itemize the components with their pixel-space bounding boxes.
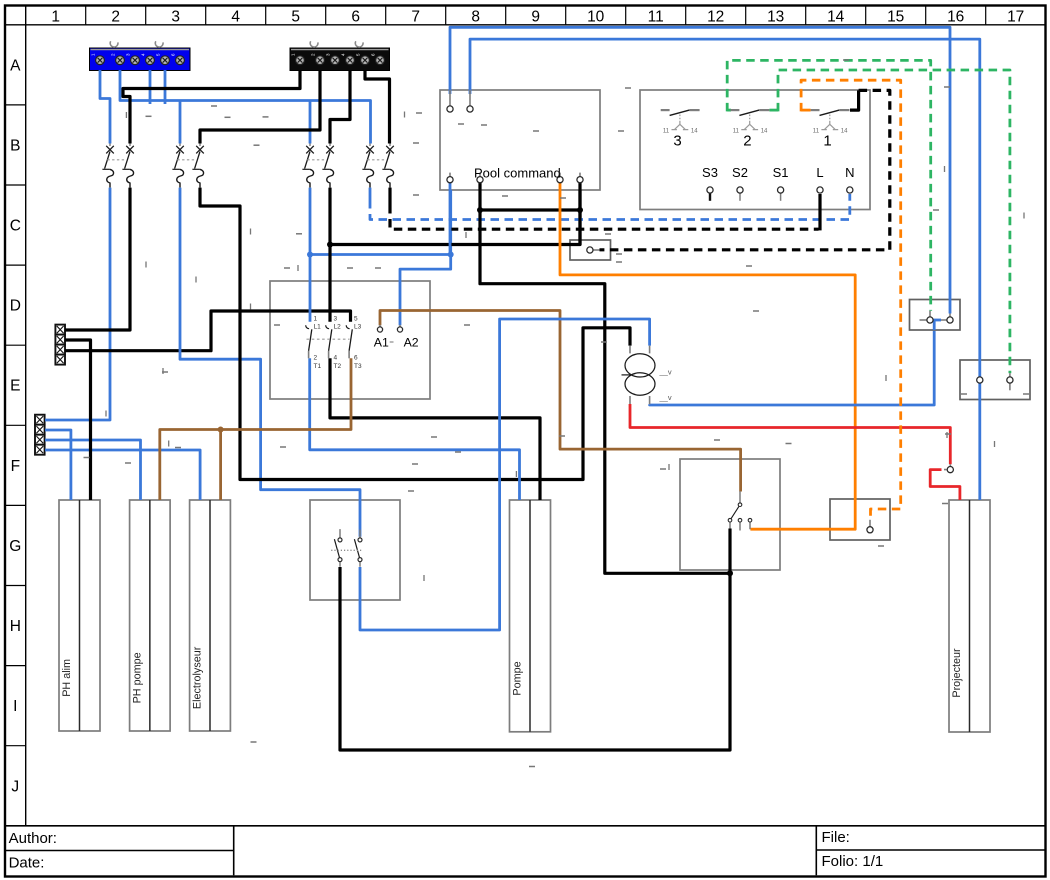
wire green link to contact 2 left bbox=[727, 109, 731, 112]
wire orange link contact 1 left bbox=[801, 109, 811, 112]
svg-text:12: 12 bbox=[707, 9, 724, 26]
svg-text:17: 17 bbox=[1007, 9, 1024, 26]
S7 right bottom stub bbox=[1009, 383, 1011, 390]
relay contact 2 bbox=[731, 110, 770, 150]
S6 terminal right bbox=[947, 317, 953, 323]
wire Q1A down to strip TB2 cell1 bbox=[45, 188, 110, 420]
svg-text:L: L bbox=[816, 165, 823, 180]
svg-text:__v: __v bbox=[659, 368, 672, 377]
wire X2:1 to Q1 pole B bbox=[123, 70, 300, 144]
wire S7 left down to Projecteur bbox=[978, 383, 981, 500]
Pool command top terminal stubs bbox=[450, 90, 470, 106]
row letter column line bbox=[25, 6, 27, 826]
column numbers bbox=[51, 9, 1024, 26]
svg-text:1: 1 bbox=[51, 9, 60, 26]
svg-text:PH pompe: PH pompe bbox=[132, 652, 144, 703]
wire TB2 cell2 to PH alim left bbox=[45, 430, 71, 500]
wire dashed neutral to N bbox=[370, 194, 850, 220]
svg-text:T2: T2 bbox=[334, 363, 342, 370]
wire dashed line to L bbox=[390, 205, 819, 229]
decorative tiny conductor marks bbox=[84, 60, 1030, 767]
svg-text:File:: File: bbox=[822, 829, 850, 846]
svg-text:4: 4 bbox=[334, 355, 338, 362]
svg-text:T3: T3 bbox=[354, 363, 362, 370]
S6 left stub bbox=[920, 319, 927, 321]
svg-text:Author:: Author: bbox=[9, 830, 57, 847]
node junction out4 bbox=[577, 207, 583, 213]
svg-text:E: E bbox=[10, 378, 20, 395]
svg-text:1: 1 bbox=[314, 316, 318, 323]
wire Q3A down to contactor L1 bbox=[309, 188, 312, 322]
wire black link contact 1 right bbox=[850, 90, 859, 110]
transformer T1 bbox=[622, 346, 672, 405]
wire X1:1 to Q1 pole A bbox=[100, 70, 110, 144]
wire S6 internal drop bbox=[933, 320, 936, 330]
wire Pool command out2 to selector junction bbox=[480, 183, 730, 573]
wire Pool command in2 loop to S7 left bbox=[470, 39, 980, 377]
Pool command terminal out2 bbox=[477, 177, 483, 183]
wire jumper out2-out4 bbox=[480, 208, 580, 211]
circuit breaker Q3 (2-pole) bbox=[302, 143, 333, 187]
wire stub from X1:4 bbox=[149, 70, 152, 104]
wire orange Pool command out3 to selector pos3 bbox=[560, 183, 855, 529]
wire Q2A to switch S4 pole2 bbox=[180, 188, 360, 537]
svg-text:L3: L3 bbox=[354, 324, 362, 331]
S6 top-left stub bbox=[929, 311, 931, 317]
Pool command terminal in1 bbox=[447, 106, 453, 112]
wire S6 internal blue bbox=[931, 319, 941, 322]
svg-text:8: 8 bbox=[471, 9, 480, 26]
load box: PH pompe bbox=[130, 500, 171, 731]
svg-text:5: 5 bbox=[291, 9, 300, 26]
svg-text:A: A bbox=[10, 57, 21, 74]
wire X2:4 to Q3 pole B bbox=[330, 70, 350, 144]
header row bottom line bbox=[5, 24, 1046, 26]
svg-text:11: 11 bbox=[663, 128, 670, 134]
S7 right top stub bbox=[1009, 373, 1011, 377]
svg-text:B: B bbox=[10, 137, 20, 154]
svg-text:4: 4 bbox=[231, 9, 240, 26]
wire TB1 cell3 to contactor L3 bbox=[65, 311, 350, 351]
terminal S1 bbox=[773, 165, 789, 201]
wire L terminal drop bbox=[818, 194, 821, 230]
wire orange dashed contact1-left to K2 bbox=[801, 80, 901, 520]
node junction selector pos1 bbox=[727, 570, 733, 576]
terminal block X1 (blue) bbox=[90, 41, 191, 70]
svg-text:2: 2 bbox=[314, 355, 318, 362]
wire branch to contactor coil A2 bbox=[400, 255, 451, 326]
terminal S3 bbox=[702, 165, 718, 201]
svg-text:F: F bbox=[11, 458, 20, 475]
terminal S2 bbox=[732, 165, 748, 201]
row tick lines bbox=[5, 105, 26, 746]
wire red jog to Projecteur left bbox=[930, 470, 960, 500]
circuit breaker Q2 (2-pole) bbox=[172, 143, 203, 187]
svg-text:3: 3 bbox=[673, 133, 681, 150]
svg-text:6: 6 bbox=[351, 9, 360, 26]
wire blue bus branch to Q2 pole A bbox=[179, 101, 182, 144]
relay contact 3 bbox=[661, 110, 700, 150]
svg-text:11: 11 bbox=[733, 128, 740, 134]
wire branch to Electrolyseur right bbox=[219, 430, 222, 501]
wire X2:2 to Q2 pole B bbox=[200, 70, 320, 144]
svg-text:6: 6 bbox=[354, 355, 358, 362]
selector S5 contacts bbox=[728, 491, 752, 530]
wire TB2 cell3 to PH pompe left bbox=[45, 440, 141, 500]
wire bus to Pool command out1 bbox=[310, 190, 451, 255]
box switch S6 bbox=[910, 300, 961, 331]
red terminal stubs bbox=[944, 464, 950, 469]
svg-text:Folio: 1/1: Folio: 1/1 bbox=[822, 853, 884, 870]
wire coil A1 to selector common bbox=[380, 311, 741, 492]
box relay K1 bbox=[570, 240, 611, 260]
svg-text:3: 3 bbox=[171, 9, 180, 26]
box relay contacts / terminals U2 bbox=[640, 90, 870, 210]
svg-text:14: 14 bbox=[827, 9, 845, 26]
Pool command terminal in2 bbox=[467, 106, 473, 112]
svg-text:Pool command: Pool command bbox=[474, 166, 561, 181]
terminal L bbox=[816, 165, 823, 193]
svg-text:C: C bbox=[10, 218, 21, 235]
svg-text:Date:: Date: bbox=[9, 855, 45, 872]
Pool command terminal out4 bbox=[577, 177, 583, 183]
row letters bbox=[9, 57, 21, 795]
svg-text:11: 11 bbox=[648, 9, 664, 26]
wire contactor T1 to Pompe left bbox=[310, 358, 520, 500]
contactor coil terminal A1 bbox=[379, 325, 381, 327]
box contactor KM1 bbox=[270, 281, 430, 399]
svg-text:5: 5 bbox=[354, 316, 358, 323]
svg-text:15: 15 bbox=[887, 9, 904, 26]
wire Q4B stub solid bbox=[388, 188, 391, 205]
svg-text:1: 1 bbox=[823, 133, 831, 150]
wire green dashed contact2-left to S6 bbox=[727, 60, 931, 310]
svg-text:14: 14 bbox=[841, 128, 848, 134]
terminal block X2 (black) bbox=[290, 41, 390, 70]
svg-text:T1: T1 bbox=[314, 363, 322, 370]
wire stub from X1:5 bbox=[164, 70, 167, 104]
contactor pole L3/T3 bbox=[346, 316, 362, 371]
svg-text:L1: L1 bbox=[314, 324, 322, 331]
node junction out2 bbox=[477, 207, 483, 213]
terminal N bbox=[845, 165, 854, 193]
wire Pool command out1 drop bbox=[449, 183, 452, 255]
switch S4 poles bbox=[331, 529, 362, 567]
column tick lines bbox=[86, 6, 986, 25]
contactor pole L1/T1 bbox=[306, 316, 322, 371]
wire green link contact 2 right bbox=[769, 109, 778, 112]
wire Q1B down to strip TB1 cell1 bbox=[65, 188, 130, 330]
svg-text:16: 16 bbox=[947, 9, 964, 26]
svg-text:14: 14 bbox=[691, 128, 698, 134]
circuit breaker Q1 (2-pole) bbox=[102, 143, 133, 187]
node junction Pool command out1 bbox=[448, 252, 454, 258]
svg-text:11: 11 bbox=[813, 128, 820, 134]
relay contact 1 bbox=[811, 110, 850, 150]
svg-text:Projecteur: Projecteur bbox=[951, 648, 963, 698]
wire transformer secondary left (red) to terminal bbox=[630, 404, 950, 464]
red wire terminal bbox=[947, 467, 953, 473]
svg-text:__v: __v bbox=[659, 393, 672, 402]
wire bus244 to Pool command out4 bbox=[330, 190, 580, 245]
box switch S4 bbox=[310, 500, 400, 600]
svg-text:9: 9 bbox=[531, 9, 540, 26]
svg-text:10: 10 bbox=[587, 9, 605, 26]
load box: PH alim bbox=[59, 500, 100, 731]
wire TB1 cell2 to PH alim right bbox=[65, 340, 90, 500]
wire green dashed contact2-right to S7 bbox=[778, 70, 1010, 373]
S6 terminal left bbox=[927, 317, 933, 323]
svg-text:13: 13 bbox=[767, 9, 784, 26]
wire TB2 cell4 to Electrolyseur left bbox=[45, 450, 200, 500]
wire S4 pole1 to selector pos1 bbox=[340, 529, 730, 751]
wire Q2B to transformer primary left bbox=[200, 188, 630, 480]
K2 contact terminal bbox=[867, 527, 873, 533]
svg-text:A2: A2 bbox=[404, 336, 419, 350]
load box: Projecteur bbox=[949, 500, 990, 732]
load box: Pompe bbox=[510, 500, 551, 732]
contactor mechanical link bbox=[307, 338, 350, 340]
svg-text:L2: L2 bbox=[334, 324, 342, 331]
svg-text:14: 14 bbox=[761, 128, 768, 134]
svg-text:A1: A1 bbox=[374, 336, 389, 350]
svg-text:7: 7 bbox=[411, 9, 420, 26]
svg-text:2: 2 bbox=[743, 133, 751, 150]
wire blue bus X1:2 to Q4 pole A bbox=[120, 70, 371, 144]
wire contactor T2 to Pompe right bbox=[330, 358, 540, 500]
Pool command terminal out1 bbox=[447, 177, 453, 183]
terminal strip upper (black feeds) bbox=[55, 325, 65, 365]
wire Pool command out4 drop bbox=[578, 183, 581, 245]
terminal strip lower (blue feeds) bbox=[35, 415, 45, 455]
svg-text:PH alim: PH alim bbox=[61, 659, 73, 697]
S6 top-right stub bbox=[949, 314, 951, 317]
S6 middle stub bbox=[941, 319, 947, 321]
S7 terminal left bbox=[977, 377, 983, 383]
wire X2:5 to Q4 pole B bbox=[365, 70, 390, 144]
svg-text:Pompe: Pompe bbox=[512, 661, 524, 695]
svg-text:H: H bbox=[10, 618, 21, 635]
svg-text:I: I bbox=[13, 698, 17, 715]
svg-text:G: G bbox=[9, 538, 21, 555]
Pool command bottom terminal stubs bbox=[450, 173, 580, 177]
K2 stub bbox=[869, 520, 871, 527]
svg-text:2: 2 bbox=[111, 9, 120, 26]
node junction brown bbox=[218, 427, 224, 433]
K1 stub bbox=[593, 249, 600, 251]
wire Pool command in1 loop to S6 right bbox=[450, 27, 950, 313]
Pool command terminal out3 bbox=[557, 177, 563, 183]
wire Q4A stub solid bbox=[369, 188, 372, 200]
box Pool command U1 bbox=[440, 90, 600, 190]
svg-text:Electrolyseur: Electrolyseur bbox=[192, 646, 204, 709]
svg-text:S1: S1 bbox=[773, 165, 789, 180]
K1 contact terminal bbox=[587, 247, 593, 253]
node junction Q3A bus bbox=[307, 252, 313, 258]
box relay K2 bbox=[830, 499, 890, 540]
contactor coil terminal A2 bbox=[399, 325, 401, 327]
svg-text:S2: S2 bbox=[732, 165, 748, 180]
box switch S7 bbox=[960, 360, 1030, 400]
wire contactor T3 to PH pompe right bbox=[160, 358, 351, 500]
circuit breaker Q4 (2-pole) bbox=[362, 143, 393, 187]
wire transformer secondary right (blue) to S6 bbox=[650, 331, 935, 405]
box selector S5 bbox=[680, 459, 780, 570]
node junction Q3B bus bbox=[327, 242, 333, 248]
TITLE BLOCK bbox=[5, 826, 1046, 876]
wire black dashed contact1-right to K1 bbox=[600, 90, 890, 249]
svg-text:3: 3 bbox=[334, 316, 338, 323]
wire Q3B down to contactor L2 bbox=[328, 188, 331, 322]
svg-text:S3: S3 bbox=[702, 165, 718, 180]
contactor pole L2/T2 bbox=[326, 316, 342, 371]
title block texts bbox=[9, 829, 884, 872]
load box: Electrolyseur bbox=[190, 500, 231, 731]
S7 terminal right bbox=[1007, 377, 1013, 383]
svg-text:D: D bbox=[10, 298, 21, 315]
wire blue bus branch to Q3 pole A bbox=[309, 101, 312, 144]
svg-text:N: N bbox=[845, 165, 854, 180]
wire S4 pole2 to transformer primary right bbox=[360, 319, 650, 630]
svg-text:J: J bbox=[11, 778, 19, 795]
